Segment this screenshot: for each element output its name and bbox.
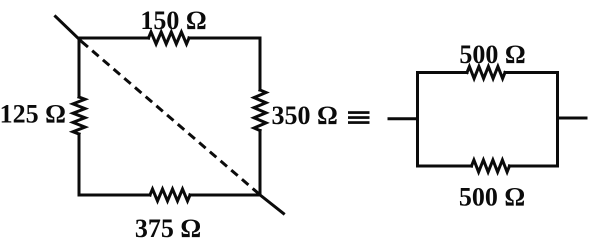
- resistor R5 500 ohm top: [467, 67, 505, 79]
- terminal lead bottom-right: [260, 195, 284, 214]
- wire top edge left segment: [79, 37, 149, 40]
- resistor R2 125 ohm: [73, 97, 85, 134]
- terminal lead top-left: [56, 17, 81, 41]
- wire right-circuit bottom edge left segment: [418, 165, 472, 168]
- resistor R4 375 ohm: [150, 189, 190, 201]
- wire right-circuit bottom edge right segment: [510, 165, 558, 168]
- wire right-circuit top edge left segment: [418, 71, 468, 74]
- wire bottom edge left segment: [79, 194, 150, 197]
- svg-text:375 Ω: 375 Ω: [135, 214, 201, 243]
- svg-text:500 Ω: 500 Ω: [459, 40, 525, 69]
- svg-text:150 Ω: 150 Ω: [140, 6, 206, 35]
- wire right-circuit right edge: [556, 73, 559, 167]
- resistor R1 150 ohm: [149, 32, 190, 44]
- wire left edge upper segment: [78, 38, 81, 97]
- wire top edge right segment: [189, 37, 260, 40]
- wire right-circuit left edge: [416, 73, 419, 167]
- resistor R3 350 ohm: [254, 90, 266, 131]
- wire right-circuit top edge right segment: [505, 71, 558, 74]
- svg-text:350 Ω: 350 Ω: [272, 101, 338, 130]
- equivalence symbol: [348, 111, 370, 124]
- svg-text:125 Ω: 125 Ω: [0, 100, 66, 129]
- terminal lead right of right circuit: [558, 117, 587, 120]
- svg-text:500 Ω: 500 Ω: [459, 183, 525, 212]
- wire left edge lower segment: [78, 134, 81, 195]
- wire right edge lower segment: [259, 131, 262, 196]
- wire right edge upper segment: [259, 38, 262, 90]
- wire bottom edge right segment: [190, 194, 260, 197]
- dashed diagonal wire: [82, 42, 259, 194]
- resistor R6 500 ohm bottom: [472, 160, 510, 172]
- terminal lead left of right circuit: [389, 117, 418, 120]
